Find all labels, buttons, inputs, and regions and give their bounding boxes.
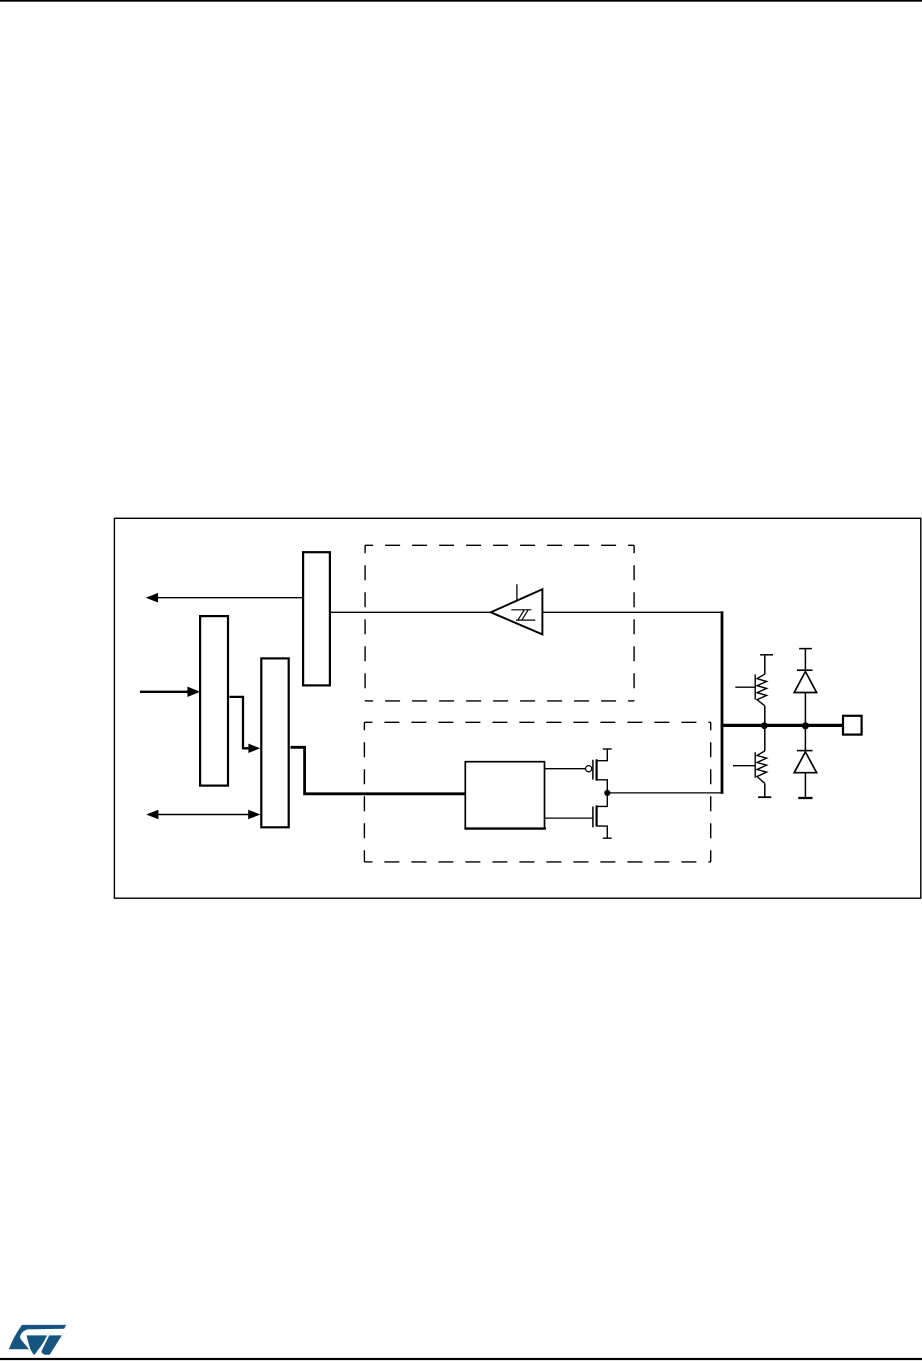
switch (pull-down on/off) [733,752,755,778]
wire: driver output to I/O bus [607,792,722,794]
register block 1 (input data register) [303,552,330,685]
resistor: weak pull-up [757,655,767,726]
dashed box: output driver [364,722,710,862]
VDD tick (P-MOS source) [603,748,612,750]
VDD tick (pull-up) [760,654,773,656]
protection diode D1 (to VDD) [794,649,816,726]
VDD tick (top protection diode) [799,648,812,650]
switch (pull-up on/off) [735,674,755,699]
protection diode D2 (to VSS) [794,725,816,797]
wire: I/O horizontal line to pad [721,724,843,727]
dashed box: input driver [365,545,634,701]
node: driver output [604,790,610,796]
arrow: write (to right into block 2) [140,687,200,697]
node: diode junction [802,722,809,729]
wire: block2 to block3 step with arrow [230,697,261,753]
wire: schmitt input from I/O node [542,611,722,613]
hysteresis symbol [511,610,535,620]
transistor Q2 (N-MOS) [545,793,607,838]
VSS tick (N-MOS source) [603,837,612,839]
wire: schmitt output to block1 [330,611,491,613]
register block 3 (read/write block) [261,658,288,827]
bottom page rule [0,1358,922,1360]
schmitt trigger enable tick [516,584,518,601]
I/O pad square [843,716,862,735]
arrow: read (to left) [146,593,303,603]
wire: block3 to output control box [291,747,466,794]
output control box [464,762,546,829]
schmitt trigger U1 [491,589,543,634]
VSS tick (bottom protection diode) [798,797,812,799]
register block 2 (output data register) [200,616,228,786]
ST logo [9,1325,66,1355]
arrow: read/write double-headed [146,810,260,819]
top page rule [0,0,922,2]
node: pull-up junction [761,722,768,729]
wire: I/O vertical bus [721,611,724,794]
figure frame [114,518,920,898]
VSS tick (pull-down) [758,796,771,798]
resistor: weak pull-down [757,725,767,796]
transistor Q1 (P-MOS) [545,749,607,793]
